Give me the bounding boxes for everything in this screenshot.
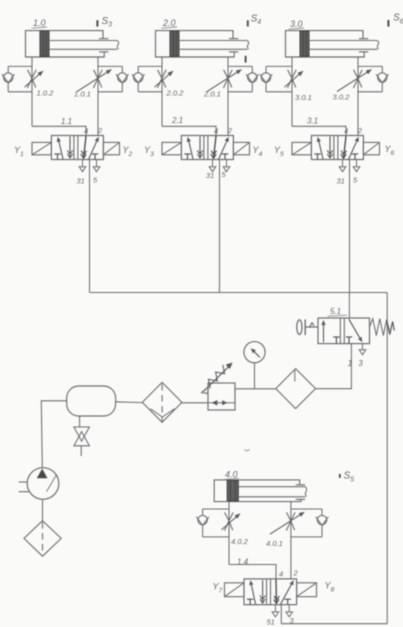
limit switch mark S4 tick xyxy=(247,20,249,26)
lubricator xyxy=(276,369,316,409)
valve 5.1 left box up arrow xyxy=(323,325,325,342)
wire dogleg to valve 1.1 port 4 xyxy=(32,126,86,135)
valve 5.1 divider xyxy=(339,318,341,344)
valve 2.1 position divider xyxy=(203,136,205,160)
flow control valve 3.0.1 bypass loop xyxy=(266,65,292,67)
exhaust port 51 xyxy=(274,605,276,612)
wire cylinder 3.0 left port down xyxy=(291,57,293,126)
limit switch mark S5 dot xyxy=(339,474,341,478)
svg-text:4: 4 xyxy=(344,127,348,136)
throttle of 4.0.2 xyxy=(225,512,233,530)
valve 3.1 right box up arrow xyxy=(349,141,357,159)
limit switch mark S3 tick xyxy=(96,20,98,26)
svg-text:Y6: Y6 xyxy=(385,144,395,157)
throttle arrow of 4.0.2 xyxy=(222,517,237,530)
rod end position mark group 2 xyxy=(245,56,247,63)
cylinder 1.0 piston xyxy=(40,31,49,56)
svg-text:3.0.2: 3.0.2 xyxy=(333,93,351,102)
valve 1.1 body xyxy=(51,136,103,160)
valve 5.1 left box blocked port xyxy=(333,336,339,338)
cylinder 2.0 body xyxy=(156,31,235,57)
svg-text:51: 51 xyxy=(267,618,275,627)
flow control valve 2.0.2 bypass loop xyxy=(138,65,162,67)
svg-text:3.0: 3.0 xyxy=(290,19,303,29)
svg-text:1.0.2: 1.0.2 xyxy=(37,89,55,98)
check valve of 2.0.1 xyxy=(248,73,257,82)
solenoid Y8 xyxy=(297,583,317,597)
solenoid Y4 xyxy=(233,142,249,154)
cylinder 2.0 piston xyxy=(170,31,179,56)
solenoid Y7 xyxy=(225,583,245,597)
valve 3.1 right box blocked port xyxy=(352,153,358,155)
svg-text:2.0.2: 2.0.2 xyxy=(166,89,185,98)
valve 2.1 body xyxy=(181,136,233,160)
svg-text:1.0.1: 1.0.1 xyxy=(74,90,91,99)
solenoid Y2 xyxy=(103,142,119,154)
throttle arrow of 4.0.1 xyxy=(270,515,300,534)
svg-text:Y5: Y5 xyxy=(274,145,284,158)
check valve of 4.0.2 xyxy=(198,515,207,524)
wire supply manifold horizontal xyxy=(90,292,388,294)
throttle arrow of 2.0.1 xyxy=(207,72,237,91)
wire filter to regulator xyxy=(182,402,208,404)
wire cylinder 4.0 left port down xyxy=(228,502,230,565)
check valve of 3.0.1 xyxy=(261,73,270,82)
svg-text:S6: S6 xyxy=(393,13,403,26)
cylinder 1.0 rod gland marks xyxy=(99,38,108,40)
svg-text:1.0: 1.0 xyxy=(33,18,46,28)
check valve of 3.0.2 xyxy=(378,73,387,82)
throttle of 4.0.1 xyxy=(287,512,295,530)
drain valve xyxy=(74,427,90,441)
wire bottom supply line to valve 1.4 xyxy=(281,623,387,625)
valve 1.1 position divider xyxy=(73,136,75,160)
svg-text:3: 3 xyxy=(358,359,363,368)
compressor drive shaft marks xyxy=(19,481,28,483)
valve 1.4 right box up arrow xyxy=(280,585,291,605)
svg-text:4.0.2: 4.0.2 xyxy=(231,537,249,546)
wire dogleg to valve 1.4 port 4 xyxy=(229,565,276,579)
compressor xyxy=(27,468,59,500)
filter with water separator xyxy=(142,382,182,422)
wire valve 1.1 supply port 1 down xyxy=(89,160,91,293)
cylinder 1.0 rod xyxy=(49,40,117,42)
solenoid Y3 xyxy=(162,142,181,154)
cylinder 3.0 body xyxy=(286,31,365,57)
wire tank to filter xyxy=(116,401,143,404)
valve 1.1 right box blocked port xyxy=(92,153,98,155)
svg-text:3.1: 3.1 xyxy=(307,117,318,126)
svg-text:2: 2 xyxy=(293,569,299,578)
svg-text:Y2: Y2 xyxy=(123,145,133,158)
wire cylinder 2.0 right port down xyxy=(227,57,229,136)
valve 1.1 left box up arrow xyxy=(59,142,63,159)
svg-text:4.0: 4.0 xyxy=(225,469,238,479)
cylinder 3.0 piston xyxy=(300,31,309,56)
exhaust port 3 xyxy=(288,605,290,612)
valve 5.1 exhaust port xyxy=(362,344,364,350)
svg-text:4: 4 xyxy=(214,127,218,136)
valve 1.4 left box up arrow xyxy=(251,585,255,604)
throttle arrow of 2.0.2 xyxy=(155,75,170,88)
svg-text:4: 4 xyxy=(84,127,88,136)
wire valve 3.1 supply port 1 down xyxy=(349,160,351,293)
pressure regulator xyxy=(208,383,235,410)
wire cylinder 1.0 right port down xyxy=(97,57,99,136)
svg-text:4.0.1: 4.0.1 xyxy=(266,539,283,548)
check valve of 1.0.2 xyxy=(4,73,13,82)
flow control valve 1.0.1 bypass loop xyxy=(98,65,122,67)
flow control valve 4.0.2 bypass loop xyxy=(203,508,229,510)
valve 3.1 right box down arrow xyxy=(344,136,347,158)
valve 5.1 right box diagonal arrow xyxy=(349,319,360,338)
valve 1.4 left box down arrow xyxy=(262,580,264,603)
wire intake filter to compressor xyxy=(42,499,44,520)
regulator adjustment spring xyxy=(204,364,232,392)
svg-text:31: 31 xyxy=(206,171,214,180)
svg-text:Y1: Y1 xyxy=(14,145,24,158)
throttle of 2.0.1 xyxy=(224,70,232,88)
svg-text:2: 2 xyxy=(97,126,103,135)
throttle of 3.0.1 xyxy=(288,70,296,88)
wire valve 1.4 supply port 1 down xyxy=(280,605,282,624)
cylinder 4.0 body xyxy=(214,480,301,502)
throttle arrow of 1.0.2 xyxy=(25,75,40,88)
flow control valve 3.0.2 bypass loop xyxy=(358,65,382,67)
limit switch mark S6 tick xyxy=(387,20,389,27)
svg-text:31: 31 xyxy=(77,177,85,186)
valve 2.1 left box blocked port xyxy=(184,153,190,155)
valve 2.1 right box down arrow xyxy=(214,136,217,158)
valve 5.1 return spring xyxy=(370,319,390,336)
valve 5.1 body xyxy=(318,318,370,344)
wire dogleg to valve 2.1 port 4 xyxy=(162,126,216,135)
exhaust port 31 xyxy=(342,160,344,167)
receiver tank xyxy=(67,386,116,416)
svg-text:2: 2 xyxy=(227,126,233,135)
valve 2.1 right box up arrow xyxy=(219,141,227,159)
cylinder 3.0 rod gland marks xyxy=(359,38,368,40)
tank drain line xyxy=(79,416,81,427)
valve 3.1 left box blocked port xyxy=(314,153,320,155)
solenoid Y1 xyxy=(32,142,51,154)
svg-text:Y3: Y3 xyxy=(144,145,154,158)
cylinder 3.0 rod xyxy=(309,40,377,42)
throttle arrow of 3.0.2 xyxy=(337,72,367,91)
wire cylinder 2.0 left port down xyxy=(161,57,163,126)
valve 5.1 right box blocked port xyxy=(346,336,352,338)
pressure gauge xyxy=(244,342,265,363)
svg-text:Y4: Y4 xyxy=(253,145,263,158)
exhaust port 31 xyxy=(82,160,84,167)
wire regulator output xyxy=(235,388,276,390)
cylinder 1.0 body xyxy=(26,31,105,57)
valve 5.1 push button actuator xyxy=(305,326,319,328)
svg-text:Y8: Y8 xyxy=(325,581,335,594)
exhaust port 5 xyxy=(226,160,228,167)
valve 3.1 body xyxy=(311,136,363,160)
svg-text:2.1: 2.1 xyxy=(171,116,183,125)
valve 2.1 right box blocked port xyxy=(222,153,228,155)
svg-text:5.1: 5.1 xyxy=(330,307,341,316)
valve 2.1 left box down arrow xyxy=(199,137,201,159)
valve 1.1 left box blocked port xyxy=(54,153,60,155)
exhaust port 31 xyxy=(212,160,214,167)
check valve of 1.0.1 xyxy=(118,73,127,82)
svg-text:2: 2 xyxy=(357,126,363,135)
wire cylinder 3.0 right port down xyxy=(357,57,359,136)
svg-text:S5: S5 xyxy=(344,471,355,484)
throttle of 1.0.2 xyxy=(28,70,36,88)
svg-text:1.4: 1.4 xyxy=(237,557,249,566)
valve 1.4 right box blocked port xyxy=(285,598,291,600)
valve 1.4 position divider xyxy=(266,579,268,605)
svg-text:3.0.1: 3.0.1 xyxy=(295,93,312,102)
wire manifold right edge drop xyxy=(386,293,388,624)
valve 1.4 right box down arrow xyxy=(275,579,277,603)
intake filter xyxy=(24,521,61,557)
valve 1.1 right box up arrow xyxy=(89,141,97,159)
check valve of 2.0.2 xyxy=(134,73,143,82)
valve 1.4 body xyxy=(244,579,297,605)
wire dogleg to valve 3.1 port 4 xyxy=(292,126,346,135)
svg-text:4: 4 xyxy=(279,570,283,579)
valve 1.1 left box down arrow xyxy=(69,137,71,159)
flow control valve 2.0.1 bypass loop xyxy=(228,65,252,67)
cylinder 4.0 rod xyxy=(238,486,305,488)
svg-text:5: 5 xyxy=(93,176,98,185)
svg-text:S4: S4 xyxy=(251,13,262,26)
svg-text:31: 31 xyxy=(337,177,345,186)
check valve of 4.0.1 xyxy=(317,515,326,524)
throttle of 3.0.2 xyxy=(354,70,362,88)
solenoid Y5 xyxy=(292,142,311,154)
valve 1.1 right box down arrow xyxy=(84,136,87,158)
valve 3.1 position divider xyxy=(333,136,335,160)
wire lubricator to valve 5.1 supply xyxy=(316,344,352,389)
throttle of 1.0.1 xyxy=(94,70,102,88)
cylinder 4.0 piston xyxy=(227,481,238,502)
wire compressor to receiver tank xyxy=(41,401,66,468)
wire cylinder 4.0 right port down xyxy=(290,502,292,579)
throttle arrow of 3.0.1 xyxy=(285,75,300,88)
solenoid Y6 xyxy=(363,142,379,154)
wire manifold to valve 5.1 top port xyxy=(348,293,350,319)
valve 2.1 left box up arrow xyxy=(189,142,193,159)
cylinder 2.0 rod xyxy=(179,40,247,42)
stray pencil mark xyxy=(245,450,250,451)
svg-text:2.0.1: 2.0.1 xyxy=(203,90,221,99)
exhaust port 5 xyxy=(96,160,98,167)
throttle of 2.0.2 xyxy=(158,70,166,88)
wire cylinder 1.0 left port down xyxy=(31,57,33,126)
svg-text:S3: S3 xyxy=(102,16,113,29)
exhaust port 5 xyxy=(356,160,358,167)
svg-text:1.1: 1.1 xyxy=(61,117,72,126)
svg-text:2.0: 2.0 xyxy=(162,18,176,28)
svg-text:Y7: Y7 xyxy=(213,582,223,595)
flow control valve 4.0.1 bypass loop xyxy=(291,508,322,510)
throttle arrow of 1.0.1 xyxy=(77,72,107,91)
svg-text:5: 5 xyxy=(353,176,358,185)
cylinder 4.0 rod gland marks xyxy=(296,484,305,486)
wire valve 2.1 supply port 1 down xyxy=(219,160,221,293)
cylinder 2.0 rod gland marks xyxy=(229,38,238,40)
valve 1.4 left box blocked port xyxy=(247,598,253,600)
valve 3.1 left box up arrow xyxy=(319,142,323,159)
flow control valve 1.0.2 bypass loop xyxy=(8,65,32,67)
valve 3.1 left box down arrow xyxy=(329,137,331,159)
